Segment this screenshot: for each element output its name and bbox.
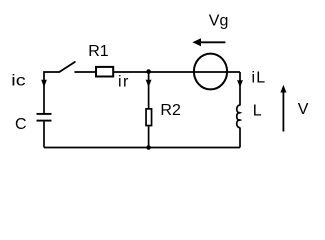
wire R1 to top junction and on to voltage source [114, 71, 241, 73]
capacitor C plates [37, 114, 52, 121]
svg-text:V: V [298, 101, 309, 118]
resistor R2 [146, 109, 152, 126]
node top junction [146, 69, 151, 74]
svg-text:Vg: Vg [209, 13, 229, 30]
wire top junction down to R2 [148, 72, 150, 109]
node bottom junction [146, 145, 151, 150]
inductor L (coil) [237, 105, 240, 127]
svg-text:iL: iL [252, 70, 267, 87]
svg-text:R1: R1 [88, 43, 109, 60]
wire right rail top (corner down to inductor) [239, 72, 241, 106]
wire bottom rail [44, 147, 240, 149]
svg-text:L: L [253, 102, 262, 119]
reference arrow Vg (points left) [192, 38, 225, 46]
wire R2 to bottom junction [148, 126, 150, 148]
wire from switch to resistor R1 [74, 71, 95, 73]
wire top-left corner: left rail up to top wire [44, 72, 59, 113]
current arrow ir [146, 80, 152, 87]
wire capacitor to bottom-left corner [43, 122, 45, 148]
switch blade (open switch) [59, 62, 75, 72]
voltage arrow V (points up) [280, 85, 286, 132]
svg-text:ic: ic [11, 73, 25, 90]
svg-text:ir: ir [118, 74, 130, 91]
voltage source Vg (circle) [194, 54, 227, 90]
svg-text:R2: R2 [160, 102, 181, 119]
resistor R1 [96, 67, 113, 77]
wire inductor to bottom-right corner [239, 127, 241, 147]
svg-text:C: C [15, 116, 27, 133]
current arrow ic [41, 80, 47, 88]
current arrow iL [237, 80, 243, 87]
